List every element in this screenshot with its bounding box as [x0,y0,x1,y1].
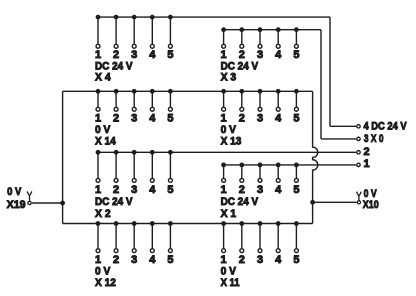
svg-text:5: 5 [293,49,299,61]
svg-text:X 1: X 1 [221,208,237,220]
svg-text:DC 24 V: DC 24 V [95,196,133,208]
svg-text:1: 1 [95,49,101,61]
svg-text:3: 3 [131,184,137,196]
svg-text:3 X 0: 3 X 0 [364,133,384,145]
svg-text:3: 3 [257,184,263,196]
svg-text:1: 1 [364,158,370,170]
svg-text:3: 3 [131,49,137,61]
svg-text:4: 4 [275,113,282,125]
svg-text:4: 4 [149,113,156,125]
svg-text:1: 1 [221,184,227,196]
svg-text:0 V: 0 V [221,124,237,136]
svg-text:3: 3 [131,113,137,125]
svg-text:5: 5 [293,254,299,266]
svg-text:X 11: X 11 [221,277,240,289]
svg-text:2: 2 [113,254,119,266]
svg-text:X19: X19 [7,199,26,211]
svg-text:5: 5 [167,113,173,125]
svg-text:2: 2 [239,49,245,61]
svg-text:X 12: X 12 [95,277,116,289]
svg-text:1: 1 [95,184,101,196]
svg-text:5: 5 [293,184,299,196]
svg-text:1: 1 [221,113,227,125]
svg-text:X 2: X 2 [95,208,111,220]
svg-text:2: 2 [113,49,119,61]
svg-text:X 14: X 14 [95,136,116,148]
svg-text:5: 5 [167,184,173,196]
svg-text:2: 2 [239,113,245,125]
svg-text:3: 3 [131,254,137,266]
svg-text:3: 3 [257,49,263,61]
svg-text:4 DC 24 V: 4 DC 24 V [364,121,408,133]
svg-text:X 3: X 3 [221,72,237,84]
svg-text:4: 4 [275,49,282,61]
svg-text:0 V: 0 V [221,265,237,277]
svg-text:0 V: 0 V [95,265,111,277]
svg-text:5: 5 [167,49,173,61]
svg-text:0 V: 0 V [7,186,22,198]
svg-text:4: 4 [149,184,156,196]
svg-text:4: 4 [149,49,156,61]
svg-text:X 13: X 13 [221,136,242,148]
svg-text:1: 1 [95,113,101,125]
svg-text:X10: X10 [363,199,379,211]
svg-text:3: 3 [257,113,263,125]
svg-text:4: 4 [275,254,282,266]
svg-text:4: 4 [275,184,282,196]
svg-text:5: 5 [167,254,173,266]
svg-text:X 4: X 4 [95,72,111,84]
svg-text:2: 2 [113,113,119,125]
svg-text:2: 2 [239,184,245,196]
svg-text:2: 2 [364,146,370,158]
svg-text:5: 5 [293,113,299,125]
svg-text:4: 4 [149,254,156,266]
svg-text:1: 1 [221,49,227,61]
svg-text:2: 2 [239,254,245,266]
svg-text:0 V: 0 V [95,124,111,136]
svg-text:DC 24 V: DC 24 V [221,196,259,208]
svg-text:3: 3 [257,254,263,266]
svg-text:2: 2 [113,184,119,196]
